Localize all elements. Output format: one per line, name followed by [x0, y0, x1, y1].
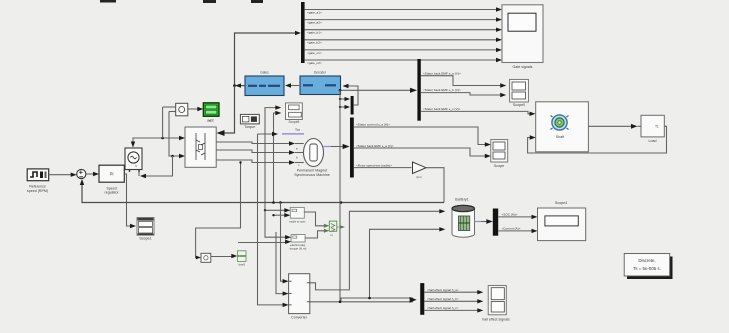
wire U5 in2: [272, 213, 290, 217]
svg-text:<Rotor speed wm (rad/s)>: <Rotor speed wm (rad/s)>: [356, 163, 392, 167]
gain G1: [413, 162, 427, 179]
svg-text:<Stator back EMF e_a (V)>: <Stator back EMF e_a (V)>: [356, 144, 394, 148]
svg-text:TL: TL: [655, 125, 659, 129]
wire Decoder output to Gates input: [285, 83, 300, 87]
machine PMSM M1: [294, 139, 330, 177]
wire gain out to feedback: [426, 168, 444, 203]
wire vertical x2805 to converter in1: [281, 203, 289, 284]
svg-text:Battery1: Battery1: [455, 198, 468, 202]
svg-text:torque (N.m): torque (N.m): [290, 247, 307, 251]
wire phase A: [216, 141, 295, 145]
svg-text:Shaft: Shaft: [556, 135, 564, 139]
wire scope5 in1: [265, 105, 281, 210]
scope Scope4: [538, 201, 586, 241]
bus selector B2 (emf signals): [417, 59, 420, 121]
svg-text:Synchronous Machine: Synchronous Machine: [294, 173, 330, 177]
bus selector B1: [350, 118, 354, 178]
block Gates (data type conversion): [245, 71, 284, 96]
svg-text:<hall effect signal h_b>: <hall effect signal h_b>: [427, 297, 459, 301]
block Battery1: [452, 198, 475, 238]
wire sum to regulator: [86, 172, 99, 176]
wire vertical x276 to converter in2: [276, 232, 289, 296]
subsystem U6 (torque calc): [290, 235, 307, 251]
goto tag G2 (green): [238, 251, 247, 267]
block U7 small sensor: [201, 253, 211, 262]
svg-text:<gate_c2>: <gate_c2>: [307, 61, 322, 65]
svg-text:Load: Load: [649, 139, 657, 143]
demux D1 (gate signals): [301, 2, 305, 63]
svg-text:Decoder: Decoder: [314, 71, 327, 75]
svg-text:Gates: Gates: [260, 71, 269, 75]
wire battery m out: [475, 219, 493, 224]
svg-text:Converter: Converter: [291, 315, 308, 319]
wire DC- rail to inverter: [169, 112, 185, 159]
wire gate line 3: [305, 28, 502, 35]
scope Gate signals: [502, 5, 543, 69]
block Speed regulator: [99, 165, 124, 194]
svg-text:rad/s to rpm: rad/s to rpm: [289, 220, 306, 224]
svg-text:<Stator back EMF e_a (V)>: <Stator back EMF e_a (V)>: [423, 71, 461, 75]
svg-text:Discrete,: Discrete,: [638, 258, 655, 263]
wire B3 out2 current: [498, 227, 537, 234]
wire load torque feedback: [528, 126, 667, 153]
wire hall out2: [424, 297, 483, 304]
wire B2 out1: [421, 71, 506, 87]
wire scope5 in2: [274, 111, 282, 203]
wire B2 input from hall bus: [339, 88, 417, 93]
wire hall to Decoder input: [343, 84, 359, 105]
block voltage measurement U3: [163, 103, 188, 138]
wire battery in2: [368, 227, 445, 299]
wire gate line 5: [305, 48, 502, 55]
wire Gates output to vertical bus: [233, 83, 245, 87]
mux M3 (green): [329, 221, 345, 237]
wire B3 out1 SOC: [498, 213, 537, 220]
mux M2 (hall merge): [339, 96, 354, 115]
svg-text:<Stator current is_a (A)>: <Stator current is_a (A)>: [356, 123, 390, 127]
scope Scope0: [510, 79, 529, 107]
scope Scope5: [286, 103, 303, 124]
svg-text:hall effect signals: hall effect signals: [482, 317, 510, 321]
svg-text:<gate_a1>: <gate_a1>: [307, 10, 322, 14]
wire Tm input (purple): [258, 128, 305, 136]
title text remnant at top edge: [100, 0, 263, 3]
wire converter out1 to battery: [310, 209, 446, 290]
block Reference speed (RPM): [27, 169, 49, 193]
block inverter U4: [185, 119, 216, 167]
scope Scope1: [137, 218, 154, 241]
svg-text:Scope5: Scope5: [288, 120, 299, 124]
wire gate bus into inverter g: [217, 86, 235, 136]
wire phase C tap to sensor: [196, 161, 242, 259]
svg-text:PI: PI: [110, 172, 114, 177]
svg-text:Permanent Magnet: Permanent Magnet: [297, 168, 328, 172]
display Vdc (green): [203, 103, 219, 123]
scope Scope3: [491, 140, 508, 168]
wire B2 out2: [421, 88, 506, 97]
svg-text:<hall effect signal h_c>: <hall effect signal h_c>: [427, 306, 459, 310]
wire converter out2 hall bus: [310, 297, 417, 303]
wire B1 out3 rotor speed: [354, 163, 412, 167]
svg-text:<gate_b2>: <gate_b2>: [307, 41, 322, 45]
svg-text:Scope0: Scope0: [513, 103, 525, 107]
wire machine m output to bus selector: [324, 144, 350, 149]
wire U6 in2: [238, 240, 291, 244]
wire B1 out2 back EMF: [354, 144, 491, 158]
svg-text:<hall effect signal h_a>: <hall effect signal h_a>: [427, 288, 459, 292]
wire inverter lower rail to source: [139, 156, 173, 178]
wire U7 to goto tag: [211, 254, 238, 258]
wire ref to sum: [49, 173, 77, 177]
wire gate line 6: [305, 58, 502, 65]
bus selector B3 (battery): [493, 209, 498, 236]
block Torque: [240, 114, 259, 128]
svg-text:Tm: Tm: [295, 128, 300, 132]
block Decoder: [300, 71, 341, 95]
wire hall out3: [424, 306, 483, 313]
scope hall effect signals: [482, 286, 510, 322]
wire Shaft out to Load: [588, 124, 637, 129]
wire demux D1 input: [235, 31, 302, 86]
wire gate line 1: [305, 7, 502, 14]
block Converter: [289, 274, 310, 320]
svg-text:Scope4: Scope4: [555, 201, 567, 205]
svg-text:regulator: regulator: [105, 191, 120, 195]
svg-text:<Stator back EMF e_c (V)>: <Stator back EMF e_c (V)>: [423, 107, 461, 111]
wire measure to Vdc display: [188, 107, 204, 111]
block Shaft: [536, 102, 589, 152]
wire regulator out / branch to Scope1: [124, 174, 136, 228]
wire speed feedback: [80, 179, 444, 204]
svg-text:Scope: Scope: [494, 164, 504, 168]
svg-text:Inv: Inv: [207, 119, 212, 123]
wire U6 to mux green: [305, 229, 329, 238]
sum S1: [77, 169, 86, 178]
wire gate line 4: [305, 38, 502, 45]
svg-text:<gate_b1>: <gate_b1>: [307, 31, 322, 35]
svg-text:<gate_a2>: <gate_a2>: [307, 21, 322, 25]
wire phase B: [216, 150, 295, 155]
wire U6 in1: [265, 210, 291, 239]
svg-text:Gate signals: Gate signals: [513, 65, 533, 69]
svg-text:speed (RPM): speed (RPM): [27, 189, 48, 193]
wire B2 out3 to Shaft: [421, 107, 536, 116]
svg-text:<Stator back EMF e_b (V)>: <Stator back EMF e_b (V)>: [423, 88, 461, 92]
svg-text:Ts = 5e-005 s.: Ts = 5e-005 s.: [633, 266, 661, 271]
wire gate line 2: [305, 17, 502, 24]
block DC source U2: [125, 148, 142, 172]
wire DC+ rail to inverter: [131, 136, 185, 148]
powergui Discrete: [624, 254, 672, 280]
wire hall out1: [424, 288, 483, 295]
svg-text:<SOC (%)>: <SOC (%)>: [502, 213, 518, 217]
svg-text:Torque: Torque: [244, 125, 255, 129]
subsystem U5 (speed conv): [289, 207, 306, 223]
svg-text:rpm: rpm: [416, 175, 422, 179]
wire U5 to mux green: [304, 212, 329, 228]
wire Tm bus vertical to converter in3: [258, 134, 289, 307]
wire phase C: [216, 160, 295, 165]
svg-text:[emf]: [emf]: [239, 262, 245, 266]
wire hall/measure vertical bus x341: [339, 90, 341, 302]
wire B1 out1 stator current: [354, 123, 491, 147]
svg-text:Scope1: Scope1: [139, 237, 151, 241]
block Load: [638, 115, 665, 143]
wire U5 in1: [264, 208, 291, 212]
demux D2 (hall signals): [420, 283, 424, 315]
svg-text:<Current (A)>: <Current (A)>: [502, 227, 521, 231]
svg-text:<gate_c1>: <gate_c1>: [307, 51, 322, 55]
